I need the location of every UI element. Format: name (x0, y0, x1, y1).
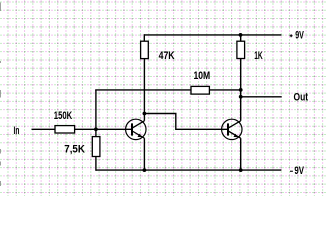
resistor 1K (237, 41, 245, 58)
wire Out (241, 96, 282, 98)
transistor Q2 (222, 119, 242, 139)
wire 10M left segment (95, 89, 191, 91)
wire 1K bottom lead to T2 collector (240, 59, 242, 121)
wire 1K top lead (240, 35, 242, 41)
junction T1 emitter / -9V rail (143, 168, 147, 172)
resistor 10M (191, 86, 209, 94)
label +9V plus sign (290, 34, 293, 37)
resistor 150K (55, 126, 75, 133)
junction 1K / +9V rail (239, 33, 243, 37)
wire T2 emitter lead (240, 138, 242, 170)
wire coupling T1 collector to T2 base (144, 114, 228, 130)
node A junction 150K/7,5K/10M (94, 127, 98, 131)
svg-text:7,5K: 7,5K (64, 143, 85, 155)
wire 47K top lead (143, 34, 145, 41)
junction Out tap (239, 95, 243, 99)
wire 7,5K bottom lead (95, 157, 97, 171)
wire +9V top rail (144, 34, 281, 36)
wire T1 emitter lead (143, 138, 145, 170)
junction 10M / 1K bottom (239, 88, 243, 92)
junction T1 collector / coupling wire (143, 112, 147, 116)
resistor 7,5K (92, 137, 100, 157)
svg-text:9V: 9V (295, 29, 304, 41)
wire 47K bottom lead to T1 collector (143, 59, 145, 121)
svg-text:In: In (14, 125, 20, 137)
svg-text:150K: 150K (54, 110, 72, 122)
resistor 47K (141, 41, 149, 58)
wire 150K to T1 base (75, 128, 132, 130)
junction T2 emitter / -9V rail (239, 168, 243, 172)
wire 10M right segment (209, 89, 240, 91)
transistor Q1 (126, 119, 146, 139)
wire -9V bottom rail (96, 169, 282, 171)
label -9V minus sign (290, 171, 293, 172)
svg-text:9V: 9V (294, 165, 304, 177)
left screen edge artifacts (0, 3, 1, 187)
wire In lead (32, 128, 56, 130)
svg-text:10M: 10M (194, 70, 211, 82)
wire 7,5K top lead (95, 129, 97, 136)
svg-text:1K: 1K (254, 50, 263, 62)
svg-text:Out: Out (294, 92, 309, 104)
svg-text:47K: 47K (159, 50, 175, 62)
wire feedback drop (node A vertical) (95, 90, 97, 129)
